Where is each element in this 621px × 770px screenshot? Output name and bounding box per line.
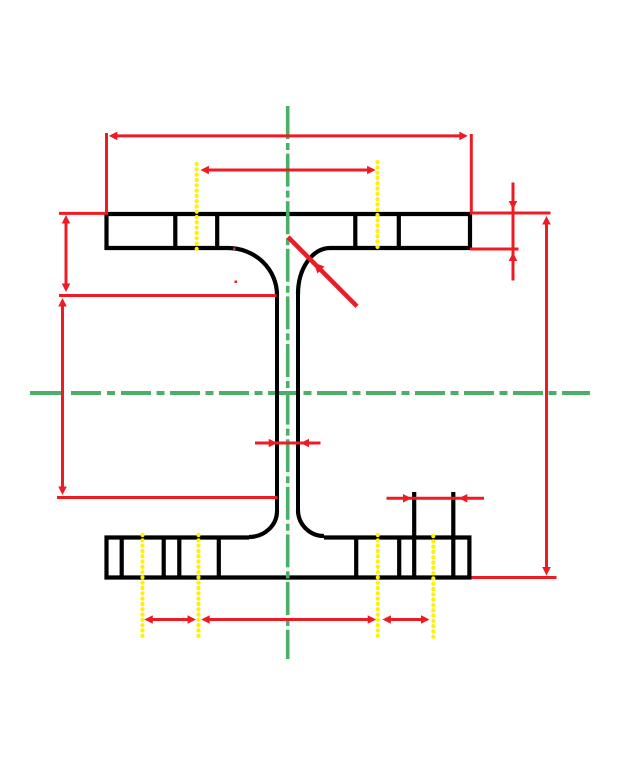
top flange outline [105, 212, 473, 250]
dimension: overall height [542, 216, 551, 576]
dimension: bottom gauge c [382, 615, 429, 624]
top flange divider 3 [353, 214, 357, 248]
bottom flange divider 5 [354, 538, 358, 578]
top-right fillet [298, 248, 330, 294]
bottom flange divider 2 [162, 538, 166, 578]
top flange divider 4 [397, 214, 401, 248]
yellow gauge line top-left [195, 164, 199, 252]
bottom flange divider 6 [397, 538, 401, 578]
vertical centerline (green dash-dot) [286, 106, 290, 659]
bottom flange outline [105, 536, 472, 580]
yellow gauge line bottom right [376, 535, 380, 640]
tall stud line right [451, 492, 455, 578]
dimension: stud spacing [387, 494, 485, 503]
leader arrow to fillet radius [288, 237, 357, 306]
tall stud line left [412, 492, 416, 578]
dimension: web thickness [255, 439, 321, 448]
extension line right (overall width) [470, 134, 473, 213]
bottom-left fillet [249, 511, 277, 537]
bottom flange divider 1 [120, 538, 124, 578]
bottom flange divider 3 [177, 538, 181, 578]
left reference line A (flange top) [59, 212, 108, 215]
top-left fillet [228, 248, 277, 295]
top flange divider 1 [173, 214, 177, 248]
dimension: bottom gauge a [144, 615, 196, 624]
bottom flange divider 4 [217, 538, 221, 578]
dimension: left vertical 1 [62, 215, 71, 292]
yellow gauge line top-right [375, 162, 379, 250]
dimension: flange thickness [509, 183, 518, 281]
yellow gauge line bottom far-right [431, 536, 435, 640]
extension line left (overall width) [105, 133, 108, 215]
stray red speck near fillet start [233, 248, 236, 251]
dimension: top gauge width line [200, 166, 375, 175]
bottom-right reference line F (flange bottom) [472, 576, 557, 579]
right reference line D (flange top) [470, 212, 551, 215]
left reference line C (web end) [57, 496, 278, 499]
left reference line B (web start) [59, 294, 277, 297]
dimension: left vertical 2 [58, 298, 67, 495]
web right edge [296, 293, 300, 510]
stray red speck under fillet [235, 281, 238, 284]
yellow gauge line bottom left [196, 535, 200, 640]
web left edge [275, 294, 279, 511]
top flange divider 2 [215, 214, 219, 248]
dimension: bottom gauge b [201, 615, 376, 624]
dimension: overall width line [109, 132, 468, 141]
yellow gauge line bottom far-left [140, 535, 144, 640]
right reference line E (flange bottom) [470, 248, 519, 251]
horizontal centerline (green dash-dot) [30, 391, 590, 395]
bottom-right fillet [298, 510, 324, 536]
